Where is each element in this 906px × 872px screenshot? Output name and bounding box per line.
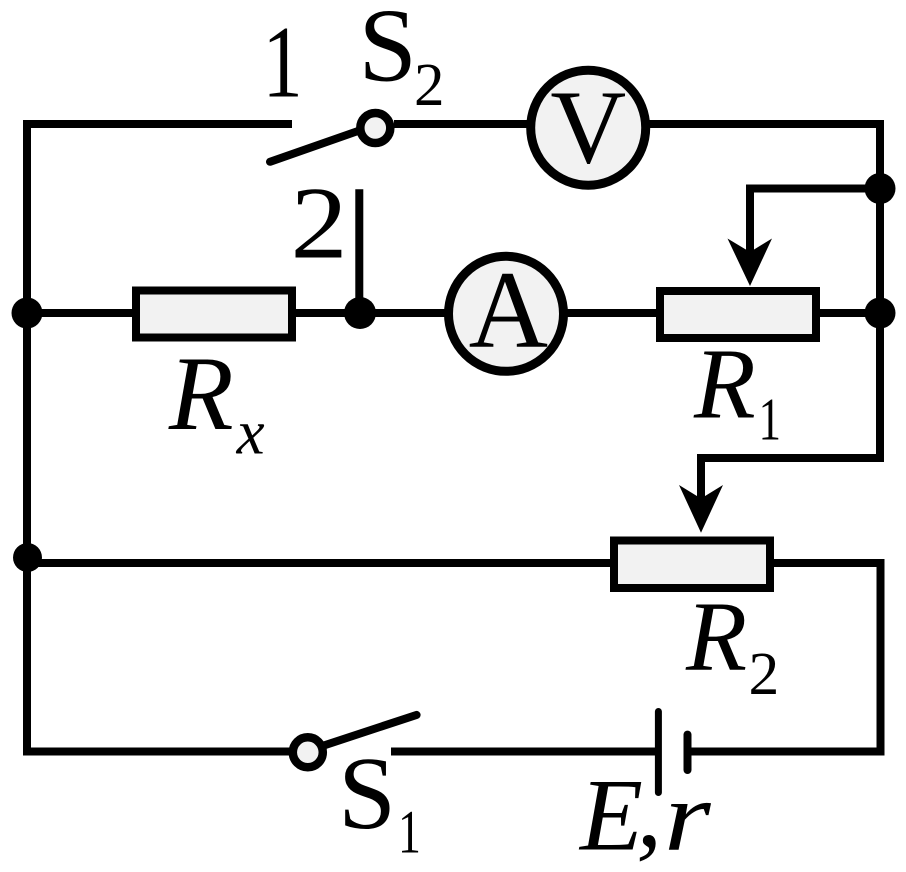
svg-text:A: A <box>469 249 548 371</box>
ammeter A <box>449 249 564 372</box>
arrowhead onto R1 wiper <box>728 239 773 287</box>
wire: switch S2 pole to voltmeter, top-right corner, right rail down to R2 wiper elbow <box>394 124 880 458</box>
label E,r <box>578 755 712 872</box>
svg-text:1: 1 <box>759 388 781 454</box>
switch S2 arm <box>270 131 358 162</box>
svg-text:2: 2 <box>291 166 348 281</box>
svg-text:R: R <box>685 580 747 691</box>
svg-text:x: x <box>236 398 265 468</box>
svg-text:,: , <box>636 755 662 869</box>
wire row 2: left node through Rx, ammeter, R1 to right rail <box>27 309 880 317</box>
wire: R1 wiper feed from right rail node <box>750 189 880 256</box>
node: right rail R1 wiper tap <box>865 173 896 204</box>
svg-text:S: S <box>359 0 417 104</box>
battery short plate <box>684 735 692 770</box>
svg-text:R: R <box>168 335 234 452</box>
switch S1 arm <box>324 715 416 745</box>
wire: left rail <box>23 124 31 752</box>
switch S1 pole circle <box>293 737 323 767</box>
arrowhead onto R2 wiper <box>679 485 723 533</box>
svg-text:V: V <box>550 69 626 186</box>
svg-text:1: 1 <box>263 5 303 119</box>
node: left rail row 2 junction <box>12 298 43 329</box>
node: right rail at R1 output <box>865 298 896 329</box>
node: terminal 2 junction on row 2 <box>344 297 376 329</box>
svg-text:1: 1 <box>398 798 421 866</box>
svg-text:R: R <box>693 327 756 439</box>
svg-text:r: r <box>664 761 712 871</box>
svg-text:E: E <box>578 759 643 872</box>
wire: R2 right side to bottom-right corner <box>770 563 881 752</box>
battery long plate <box>655 712 662 793</box>
label terminal 2 <box>291 166 348 281</box>
wire: terminal 2 stub of switch S2 <box>355 189 363 313</box>
label throw 1 <box>263 5 303 119</box>
resistor Rx box <box>136 291 292 338</box>
svg-text:2: 2 <box>414 52 445 119</box>
wire: battery short plate to bottom-right corner <box>689 748 885 756</box>
wire: top rail from left corner to switch S2 throw 1 <box>23 120 292 128</box>
wire: switch S1 to battery long plate <box>391 748 656 756</box>
node: left rail row 3 junction <box>13 543 42 572</box>
rheostat R1 box <box>660 291 816 338</box>
svg-text:2: 2 <box>749 640 780 708</box>
rheostat R2 box <box>614 541 770 589</box>
wire: bottom rail from left corner to switch S1 <box>23 748 290 756</box>
wire: R2 wiper feed elbow from right rail <box>701 458 884 502</box>
wire row 3: left node to R2 <box>27 559 620 567</box>
voltmeter V <box>531 69 646 186</box>
svg-text:S: S <box>338 736 396 851</box>
switch S2 pole circle <box>360 113 390 143</box>
